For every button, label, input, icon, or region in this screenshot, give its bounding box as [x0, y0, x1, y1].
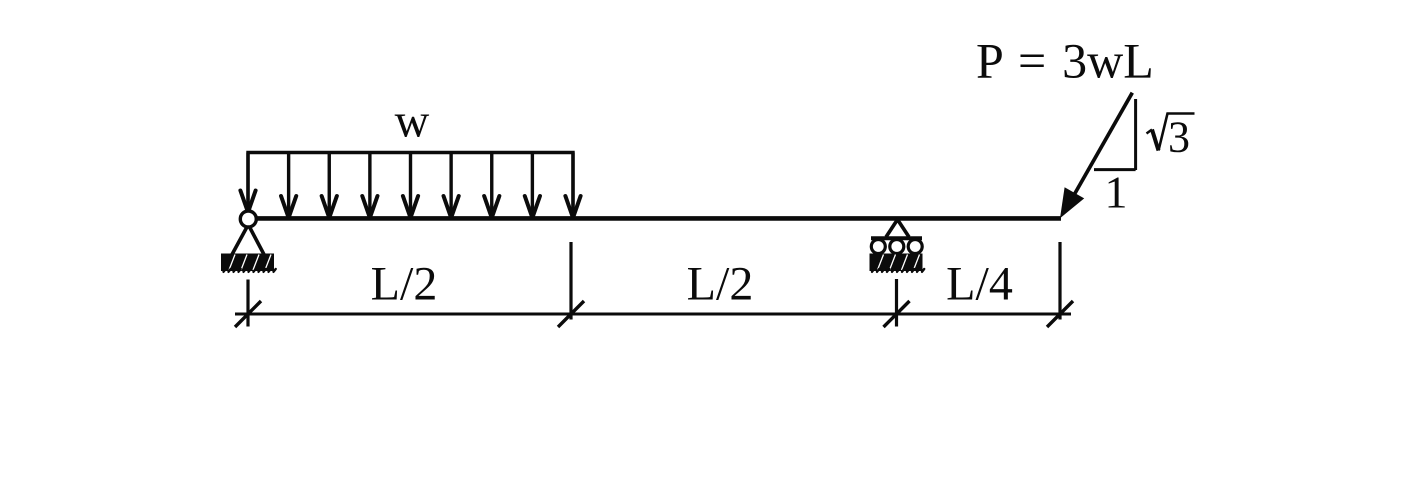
pin support triangle [232, 226, 264, 255]
svg-text:3: 3 [1168, 113, 1190, 162]
point load P arrow shaft [1072, 93, 1132, 199]
roller support base line [871, 236, 922, 240]
distributed load outline [248, 153, 573, 214]
distributed load arrow 6 [444, 153, 459, 217]
slope triangle vertical leg [1134, 99, 1137, 170]
svg-text:L/4: L/4 [946, 258, 1013, 311]
label P = 3wL [976, 33, 1154, 89]
svg-text:L/2: L/2 [687, 258, 754, 311]
svg-text:P = 3wL: P = 3wL [976, 33, 1154, 89]
dimension label L/2 left span [371, 258, 438, 311]
distributed load arrow 9 [565, 153, 580, 217]
label w [395, 95, 430, 148]
point load P arrowhead [1060, 187, 1084, 218]
roller support ground hatch [870, 254, 932, 272]
dimension label L/2 right span [687, 258, 754, 311]
dimension tick at right end [1047, 301, 1073, 327]
svg-text:w: w [395, 95, 430, 148]
distributed load arrow 2 [281, 153, 296, 217]
dimension extension line at pin support [246, 280, 249, 327]
svg-text:1: 1 [1105, 167, 1128, 218]
slope label sqrt 3 digit [1168, 113, 1190, 162]
distributed load arrow 7 [484, 153, 499, 217]
dimension tick at roller support [884, 301, 910, 327]
distributed load arrow 4 [362, 153, 377, 217]
dimension tick at pin support [235, 301, 261, 327]
dimension extension line at midspan [569, 242, 572, 320]
distributed load arrow 3 [322, 153, 337, 217]
dimension tick at midspan [558, 301, 584, 327]
dimension extension line at right end [1058, 242, 1061, 320]
pin support ground hatch [221, 254, 283, 272]
slope triangle horizontal leg [1094, 168, 1136, 171]
slope label 1 [1105, 167, 1128, 218]
beam [250, 216, 1061, 221]
distributed load arrow 1 [240, 153, 255, 211]
dimension line [235, 313, 1071, 316]
dimension extension line at roller support [895, 279, 898, 327]
svg-text:L/2: L/2 [371, 258, 438, 311]
distributed load arrow 8 [525, 153, 540, 217]
slope label sqrt 3 radical sign [1147, 114, 1195, 151]
pin support circle [240, 211, 256, 227]
distributed load arrow 5 [403, 153, 418, 217]
roller support triangle [886, 220, 909, 238]
dimension label L/4 overhang [946, 258, 1013, 311]
roller support rollers [871, 240, 922, 254]
